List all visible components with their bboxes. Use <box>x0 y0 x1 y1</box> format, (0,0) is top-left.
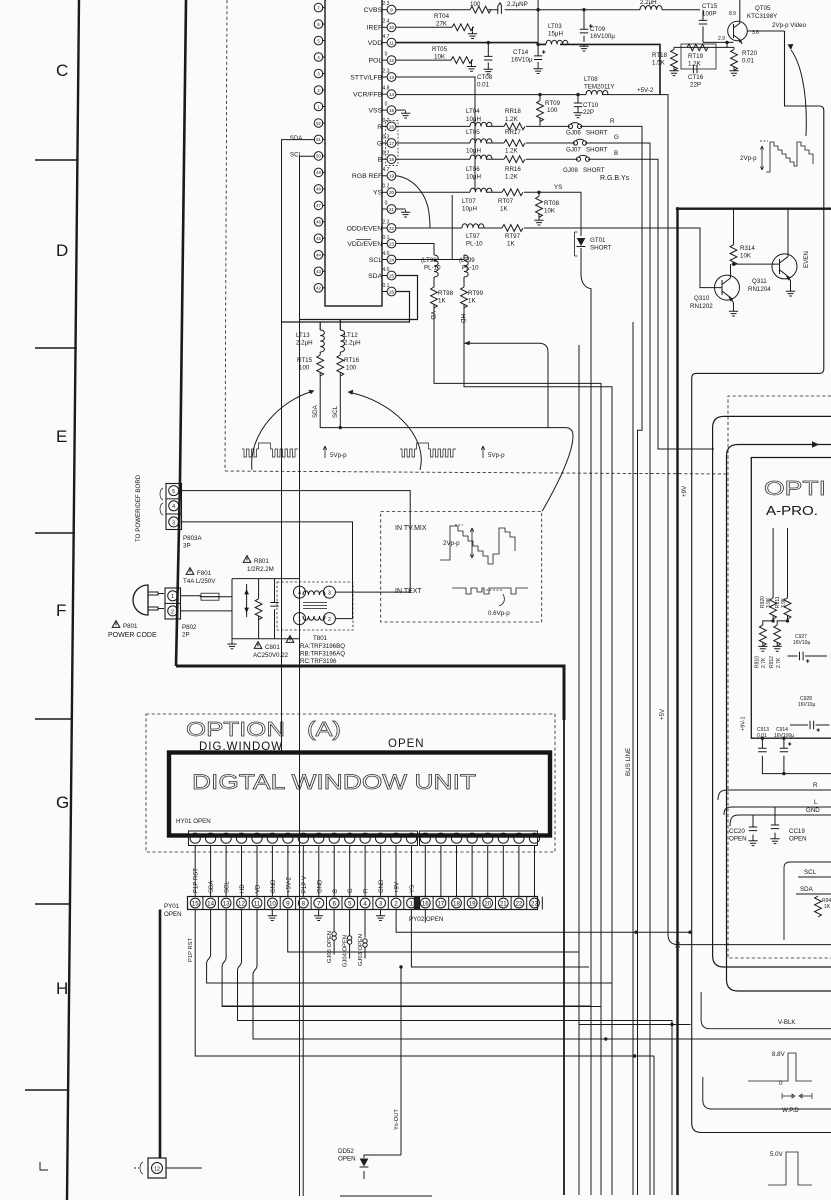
svg-text:22: 22 <box>515 900 522 907</box>
svg-text:T4A L/250V: T4A L/250V <box>183 578 216 585</box>
net +9V-1 (rotated) <box>741 716 747 731</box>
svg-text:VDD: VDD <box>368 40 384 47</box>
svg-text:26: 26 <box>389 289 395 294</box>
svg-text:SCL: SCL <box>369 257 384 264</box>
svg-text:12: 12 <box>389 58 395 63</box>
svg-text:P1P RST: P1P RST <box>194 868 200 893</box>
svg-text:RT08: RT08 <box>544 200 560 207</box>
svg-text:POWER CODE: POWER CODE <box>108 632 157 639</box>
svg-text:3: 3 <box>328 591 331 597</box>
svg-text:SDA: SDA <box>800 886 814 893</box>
wire pin14 staircase <box>207 910 612 984</box>
module inner rounded box <box>727 445 831 992</box>
svg-text:22P: 22P <box>583 109 594 116</box>
transformer T801 <box>277 582 353 630</box>
wire W.P.D rail <box>703 1077 831 1109</box>
svg-text:RT19: RT19 <box>688 53 704 60</box>
connector HY01 strip 2 <box>420 831 540 846</box>
wire QT05 collector out <box>748 30 785 32</box>
svg-text:5: 5 <box>348 900 352 907</box>
ground CT08 <box>484 67 493 74</box>
svg-text:11: 11 <box>389 41 394 46</box>
wire x538 vertical <box>537 0 539 44</box>
svg-text:BUS LINE: BUS LINE <box>625 748 632 776</box>
jumper GJ05 OPEN <box>333 910 335 955</box>
inner thick vertical line (power feed) <box>176 0 186 666</box>
waveform 2Vp-p staircase <box>760 141 813 172</box>
svg-text:3: 3 <box>317 71 320 76</box>
IC UT01 body <box>325 0 382 306</box>
svg-text:RB:TRF3196AQ: RB:TRF3196AQ <box>300 651 345 658</box>
capacitor CT09 16V100u <box>583 10 585 42</box>
svg-text:IN TEXT: IN TEXT <box>395 588 422 595</box>
svg-text:OPEN: OPEN <box>789 836 807 843</box>
svg-text:GJ07: GJ07 <box>566 147 581 154</box>
svg-text:5: 5 <box>317 38 320 43</box>
svg-text:100: 100 <box>299 365 310 372</box>
svg-text:GND: GND <box>317 879 323 893</box>
svg-text:46: 46 <box>316 220 321 225</box>
svg-text:SCL: SCL <box>804 869 817 876</box>
capacitor CT15 100P <box>702 10 704 43</box>
module outer rounded box <box>713 416 831 967</box>
ground pin13r <box>271 845 273 847</box>
svg-text:R314: R314 <box>740 245 755 252</box>
thick +9V rail horizontal <box>678 207 831 209</box>
inductor 2.2uH (CVBS) <box>640 6 662 10</box>
svg-text:+9V: +9V <box>395 882 401 893</box>
svg-text:RT15: RT15 <box>297 357 313 364</box>
svg-text:CT08: CT08 <box>477 74 493 81</box>
svg-text:YS: YS <box>373 190 384 197</box>
warn R801 <box>243 556 251 563</box>
label 5Vp-p B <box>481 446 485 458</box>
svg-text:RT07: RT07 <box>498 198 514 205</box>
IC right pins <box>347 1 396 296</box>
svg-text:RT04: RT04 <box>434 13 450 20</box>
svg-text:PL-10: PL-10 <box>424 265 441 272</box>
wire pin13 staircase <box>222 910 601 1007</box>
svg-text:14: 14 <box>389 92 395 97</box>
resistor RT98 1K (vertical) <box>431 287 438 308</box>
capacitor CT16 22P <box>693 65 697 73</box>
border tick H/I <box>25 1089 69 1091</box>
svg-text:1K: 1K <box>500 206 508 213</box>
svg-text:H: H <box>56 979 68 998</box>
wire pin8 down <box>302 910 304 1197</box>
svg-text:100: 100 <box>346 365 357 372</box>
capacitor 2.2uNP <box>498 6 502 14</box>
jumper GJ03 OPEN <box>364 910 366 959</box>
junction VDD/CT14 <box>536 43 539 46</box>
svg-text:1.5K: 1.5K <box>652 60 666 67</box>
module IC2 box <box>784 862 831 940</box>
wire RGB REF row <box>396 176 430 228</box>
svg-text:VSS: VSS <box>369 108 385 115</box>
svg-text:16V100µ: 16V100µ <box>590 33 615 40</box>
svg-text:C: C <box>56 61 68 80</box>
svg-text:21: 21 <box>389 207 395 212</box>
resistor R941 (vertical small) <box>815 896 822 917</box>
svg-text:Q310: Q310 <box>694 295 710 302</box>
svg-text:50: 50 <box>316 154 321 159</box>
resistor 100 (CVBS) <box>470 6 491 13</box>
net HD (rotated) <box>459 314 466 323</box>
svg-text:13: 13 <box>223 900 230 907</box>
svg-text:(A): (A) <box>307 719 341 741</box>
ground R910 <box>758 644 767 651</box>
svg-text:0.1: 0.1 <box>383 283 390 289</box>
svg-text:LT04: LT04 <box>466 108 480 115</box>
svg-text:OPEN: OPEN <box>388 738 425 750</box>
svg-text:49: 49 <box>316 170 321 175</box>
svg-text:10K: 10K <box>544 208 556 215</box>
junction CVBS/CT09 <box>582 8 585 11</box>
junction base node <box>725 41 728 44</box>
wire R line <box>718 790 831 800</box>
svg-text:SHORT: SHORT <box>583 167 605 174</box>
wire G row <box>396 143 650 1195</box>
svg-text:3: 3 <box>379 900 383 907</box>
net +9V lower (rotated) <box>675 940 682 952</box>
svg-text:SDA: SDA <box>368 273 384 280</box>
svg-text:HY01 OPEN: HY01 OPEN <box>176 818 211 825</box>
arrows on R801 wire <box>244 589 249 613</box>
svg-text:B: B <box>378 157 384 164</box>
ground C801 <box>231 639 233 642</box>
border tick C/D <box>35 159 78 161</box>
inductor LT06 10uH <box>470 155 492 159</box>
resistor R912 2.7K (vertical) <box>777 621 787 625</box>
resistor RR16 1.2K <box>504 156 525 163</box>
svg-text:G: G <box>377 140 384 147</box>
connector PY01 pin row <box>188 897 420 910</box>
net SCL (rotated) <box>332 405 339 418</box>
svg-text:LT03: LT03 <box>548 23 562 30</box>
svg-text:10µH: 10µH <box>466 116 481 123</box>
svg-text:R: R <box>813 782 818 789</box>
jumper GJ08 SHORT <box>576 155 589 161</box>
svg-text:GJ06: GJ06 <box>566 130 581 137</box>
svg-text:0.6Vp-p: 0.6Vp-p <box>488 610 510 617</box>
svg-text:LT97: LT97 <box>466 233 480 240</box>
svg-text:RT98: RT98 <box>438 290 454 297</box>
svg-text:48: 48 <box>316 187 321 192</box>
svg-text:STTV/LFB: STTV/LFB <box>350 74 384 81</box>
resistor RT15 100 (vertical) <box>317 355 324 376</box>
fuse F801 <box>181 595 221 598</box>
ground Q311 <box>790 281 792 289</box>
junction rail/RT09 <box>538 93 541 96</box>
svg-text:PY02 OPEN: PY02 OPEN <box>409 916 443 923</box>
svg-text:LT07: LT07 <box>462 198 476 205</box>
svg-text:+9V: +9V <box>681 485 688 497</box>
wire pin11 staircase <box>253 910 831 1040</box>
wire L line <box>724 807 831 815</box>
dashed box around RGB pins <box>386 121 399 166</box>
svg-text:18: 18 <box>453 900 460 907</box>
wire P803A pin3 right <box>182 522 353 619</box>
svg-text:SDA: SDA <box>312 404 319 418</box>
svg-text:RN1202: RN1202 <box>690 303 713 310</box>
svg-text:SHORT: SHORT <box>586 147 608 154</box>
ground RT18 <box>669 69 678 76</box>
wire B row <box>396 159 714 449</box>
svg-text:3: 3 <box>172 520 175 526</box>
junction CVBS/x538 <box>536 8 539 11</box>
svg-text:13: 13 <box>389 75 395 80</box>
border tick G/H <box>35 903 71 905</box>
svg-text:SDA: SDA <box>209 881 215 893</box>
net +5V (rotated) <box>659 708 666 720</box>
resistor RT16 100 (vertical) <box>337 355 344 376</box>
svg-text:16: 16 <box>422 900 429 907</box>
svg-text:RT99: RT99 <box>468 290 484 297</box>
svg-text:2.9: 2.9 <box>718 36 725 42</box>
svg-text:2: 2 <box>317 88 320 93</box>
svg-text:27K: 27K <box>436 21 448 28</box>
label TO POWER/DEF BORD (rotated) <box>135 474 142 542</box>
svg-text:OPTI: OPTI <box>764 478 826 500</box>
power plug P801 <box>133 585 148 615</box>
ground pin10 <box>271 910 273 914</box>
inductor LT03 15uH <box>546 40 568 44</box>
inductor LT12 2.2uH (vertical) <box>340 330 344 352</box>
svg-text:G: G <box>56 793 69 812</box>
wire YS row <box>396 192 581 226</box>
svg-text:16V10µ: 16V10µ <box>793 640 810 646</box>
waveform comb B <box>400 443 456 457</box>
net VD (rotated) <box>429 311 436 320</box>
svg-text:RC:TRF3196: RC:TRF3196 <box>300 658 337 665</box>
svg-text:RT97: RT97 <box>505 233 521 240</box>
svg-text:9: 9 <box>286 900 290 907</box>
svg-text:A-PRO.: A-PRO. <box>766 503 818 518</box>
svg-text:VDD/EVEN: VDD/EVEN <box>347 241 384 248</box>
svg-text:5.0V: 5.0V <box>770 1151 784 1158</box>
svg-text:2.7K: 2.7K <box>761 657 767 668</box>
svg-text:100: 100 <box>547 107 558 114</box>
bus vertical x654 <box>653 1056 655 1195</box>
ground CT10 <box>573 111 582 118</box>
svg-text:2Vp-p: 2Vp-p <box>443 540 460 547</box>
resistor R920 3.9K (vertical) <box>772 528 774 598</box>
svg-text:2P: 2P <box>182 632 190 639</box>
svg-text:PL-10: PL-10 <box>466 241 483 248</box>
wire IREF row <box>396 26 452 28</box>
svg-text:8.9: 8.9 <box>729 11 736 17</box>
resistor R801 (vertical) <box>255 599 262 620</box>
svg-text:PL-10: PL-10 <box>462 265 479 272</box>
connector PD12 <box>148 1158 166 1178</box>
dashed box A-PRO <box>728 396 831 958</box>
svg-text:1.2K: 1.2K <box>505 148 519 155</box>
svg-text:GJ05 OPEN: GJ05 OPEN <box>327 931 333 963</box>
wire R314 to Q311 base <box>734 263 772 265</box>
svg-text:SCL: SCL <box>225 881 231 893</box>
junction rail/CT10 <box>576 93 579 96</box>
svg-text:EVEN: EVEN <box>803 251 810 268</box>
module IC box <box>751 458 831 739</box>
svg-text:12: 12 <box>238 900 245 907</box>
svg-text:(LT99: (LT99 <box>459 257 475 264</box>
svg-text:1: 1 <box>317 104 320 109</box>
svg-text:YS: YS <box>554 184 562 191</box>
junction thick rail <box>676 207 679 210</box>
junction y1039 <box>604 1037 607 1040</box>
svg-text:SCL: SCL <box>290 152 303 159</box>
svg-text:CT09: CT09 <box>590 26 606 33</box>
svg-text:OPEN: OPEN <box>338 1156 356 1163</box>
wire y1024 V-BLK <box>579 1024 691 1026</box>
dashed region boundary vertical <box>225 0 227 471</box>
jumper GJ07 SHORT <box>573 139 586 145</box>
svg-text:VCR/FFB: VCR/FFB <box>353 92 384 99</box>
svg-text:19: 19 <box>389 174 395 179</box>
wire pin26 loop <box>282 292 410 331</box>
wire VCR/FFB +5V-2 rail <box>396 95 831 945</box>
border tick D/E <box>35 347 77 349</box>
svg-text:22: 22 <box>389 226 395 231</box>
svg-text:+5V-2: +5V-2 <box>286 876 292 893</box>
net Ys-OUT (rotated) <box>394 1109 400 1130</box>
svg-text:2Vp-p Vіdeo: 2Vp-p Vіdeo <box>772 22 807 29</box>
connector HY01 strip 1 <box>189 831 418 846</box>
svg-text:15: 15 <box>192 900 199 907</box>
svg-text:RN1204: RN1204 <box>748 286 771 293</box>
svg-text:CT10: CT10 <box>583 102 599 109</box>
svg-text:12: 12 <box>154 1167 160 1173</box>
ground RT20 <box>729 69 738 76</box>
svg-text:51: 51 <box>316 137 321 142</box>
inductor LT98 PL-10 (vertical) <box>434 255 438 277</box>
svg-text:R: R <box>364 888 370 893</box>
junction YS/RT08 <box>537 191 540 194</box>
svg-text:V-BLK: V-BLK <box>778 1019 796 1026</box>
wire Q311 collector up <box>787 209 789 248</box>
IC left pin circles <box>314 3 325 292</box>
ground RT05 <box>467 64 476 71</box>
capacitor CT08 0.01 <box>487 43 489 67</box>
annotation curve to SCL <box>350 393 421 471</box>
svg-text:16V10µ: 16V10µ <box>511 57 533 64</box>
resistor RT97 1K <box>502 225 523 232</box>
svg-text:R: R <box>377 124 384 131</box>
svg-text:PY01: PY01 <box>164 903 180 910</box>
wire POL row <box>396 59 451 61</box>
resistor RT05 10K <box>451 57 472 64</box>
svg-text:OPEN: OPEN <box>729 836 747 843</box>
svg-text:C801: C801 <box>265 644 280 651</box>
inductor LT13 2.2uH (vertical) <box>320 330 324 352</box>
connector PY02 pin row <box>420 897 543 910</box>
ground RT08 <box>534 218 543 225</box>
wire pin15 down <box>195 910 654 1057</box>
ground pin3 <box>380 910 382 914</box>
wire y1039 <box>253 1038 831 1040</box>
svg-text:15µH: 15µH <box>548 31 563 38</box>
wire pin2 +9V run <box>396 910 690 933</box>
svg-text:25: 25 <box>389 273 395 278</box>
svg-text:10K: 10K <box>434 54 446 61</box>
inductor LT04 10uH <box>470 122 492 126</box>
svg-text:5Vp-p: 5Vp-p <box>488 452 505 459</box>
wire ODD/EVEN row <box>396 228 715 288</box>
resistor RT19 1.2K <box>687 44 708 51</box>
dashed region boundary bottom <box>225 471 726 474</box>
svg-text:22P: 22P <box>690 82 701 89</box>
svg-text:4: 4 <box>363 900 367 907</box>
warn F801 <box>186 568 194 575</box>
svg-text:P801: P801 <box>123 623 138 630</box>
svg-text:10µH: 10µH <box>466 148 481 155</box>
svg-text:B: B <box>614 150 618 157</box>
svg-text:OPTION: OPTION <box>186 719 285 741</box>
svg-text:47: 47 <box>316 203 321 208</box>
svg-text:DD52: DD52 <box>338 1148 354 1155</box>
warn C801 <box>254 642 262 649</box>
wire SCL row to LT99 <box>396 255 464 260</box>
svg-text:P1P V: P1P V <box>302 876 308 893</box>
svg-text:IREF: IREF <box>367 25 384 32</box>
wire R row <box>396 126 642 1195</box>
svg-text:2.2µH: 2.2µH <box>296 340 313 347</box>
transistor Q311 RN1204 <box>772 254 797 279</box>
svg-text:0.01: 0.01 <box>742 58 755 65</box>
svg-text:CC19: CC19 <box>789 828 805 835</box>
wires strip to pins <box>195 846 534 897</box>
wire primary rails <box>181 579 300 639</box>
warn T801 <box>286 636 294 643</box>
svg-text:VD: VD <box>256 884 262 893</box>
resistor RT09 100 (vertical) <box>539 95 541 101</box>
diode DD52 OPEN <box>364 1155 401 1179</box>
svg-text:ODD/EVEN: ODD/EVEN <box>347 225 384 232</box>
svg-text:1K: 1K <box>507 241 515 248</box>
box around RT19 <box>681 44 716 69</box>
svg-text:LT05: LT05 <box>466 129 480 136</box>
svg-text:HD: HD <box>240 884 246 893</box>
svg-text:24: 24 <box>389 257 395 262</box>
junction Q310 collector <box>732 262 735 265</box>
svg-text:2.2µNP: 2.2µNP <box>507 1 528 8</box>
svg-text:2.2µH: 2.2µH <box>640 0 657 6</box>
svg-text:RT16: RT16 <box>344 357 360 364</box>
svg-text:IN TV.MIX: IN TV.MIX <box>395 525 427 532</box>
wire P803A pin5 right <box>182 491 411 592</box>
jumper GJ04 OPEN <box>349 910 351 959</box>
svg-text:LT13: LT13 <box>296 332 310 339</box>
svg-text:15: 15 <box>389 108 395 113</box>
svg-text:B: B <box>333 889 339 893</box>
svg-text:+9V: +9V <box>675 940 682 952</box>
svg-text:1.2K: 1.2K <box>505 116 519 123</box>
svg-text:43: 43 <box>316 269 321 274</box>
svg-text:1: 1 <box>298 617 301 623</box>
svg-text:2: 2 <box>394 900 398 907</box>
svg-text:HD: HD <box>459 314 466 323</box>
svg-text:P1P RST: P1P RST <box>188 937 194 962</box>
svg-text:CVBS: CVBS <box>364 7 384 14</box>
wire pin9 down-right <box>288 910 579 953</box>
svg-text:GJ04 OPEN: GJ04 OPEN <box>343 935 349 967</box>
junction y1056 <box>633 1054 636 1057</box>
svg-text:9: 9 <box>390 8 393 13</box>
svg-text:GT01: GT01 <box>590 237 606 244</box>
svg-text:1: 1 <box>410 900 414 907</box>
svg-text:SCL: SCL <box>332 405 339 418</box>
svg-text:44: 44 <box>316 253 321 258</box>
